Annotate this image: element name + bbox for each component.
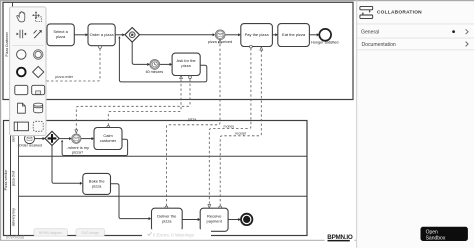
task Pay the pizza [241,24,273,47]
footer button SVG export [76,229,105,236]
task Bake the pizza [83,173,111,194]
pool Pizza Customer [3,2,353,99]
event timer 60 minutes [146,60,164,74]
task Receive payment [200,208,228,231]
palette icon gateway [33,66,44,77]
svg-text:pizza: pizza [162,219,172,224]
wire Pay the pizza to Eat the pizza [272,33,277,36]
svg-text:pizza: pizza [56,34,66,39]
palette icon data object [18,103,26,113]
palette icon hand tool [17,12,25,22]
wire parallel gateway down to Bake the pizza [52,146,82,185]
palette icon space tool [17,30,27,39]
svg-text:customer: customer [100,138,117,143]
svg-text:pizza?: pizza? [72,149,84,154]
palette icon intermediate event [34,50,43,59]
panel divider 1 [357,23,474,25]
svg-text:receipt: receipt [235,132,246,136]
svg-text:Order a pizza: Order a pizza [90,32,115,37]
gateway event-based G1 [125,28,140,43]
gateway parallel G2 [45,131,59,145]
svg-text:Hunger satisfied: Hunger satisfied [311,40,338,44]
wire Deliver to Receive payment [182,218,200,221]
properties panel [357,0,474,248]
svg-text:COLLABORATION: COLLABORATION [377,10,422,16]
button Open Sandbox [421,227,468,242]
wire gateway down to timer [132,42,150,66]
svg-text:Pay the pizza: Pay the pizza [245,32,270,37]
wire gateway to pizza received event [140,33,216,36]
wire Order received to parallel gateway [35,137,46,140]
event end payment received (terminate) [241,214,252,225]
footer lint status [142,229,211,238]
wire Bake the pizza to Deliver the pizza [111,184,152,220]
wire message flow money: Pay to Receive payment (dashed) [208,48,251,208]
wire timer to Ask for the pizza [160,63,173,66]
footer button BPMN export [34,229,68,236]
wire message flow Calm customer to Ask (dashed) [107,79,181,128]
palette icon task [15,85,28,94]
svg-text:money: money [224,125,235,129]
wire Select a pizza to Order a pizza [74,33,88,36]
wire message flow receipt: Receive payment to Pay (dashed) [219,50,261,209]
logo bpmn.io watermark [325,230,355,242]
wire start stub to Select a pizza [43,33,47,36]
wire loop Calm customer back [61,139,128,155]
task Eat the pizza [278,24,310,47]
svg-text:download: download [6,235,25,240]
palette icon data store [34,103,43,113]
task Deliver the pizza [152,208,183,231]
pool Pizza vendor [4,121,308,236]
lane divider 1 [19,155,308,157]
svg-text:Open: Open [426,229,438,235]
svg-text:BPMN diagram: BPMN diagram [39,231,62,235]
svg-text:0 Errors, 0 Warnings: 0 Errors, 0 Warnings [153,232,195,237]
panel divider 3 [357,49,474,51]
palette icon subprocess [32,85,45,94]
wire message flow Ask to where-is-my-pizza (dashed) [75,79,190,133]
page left border [0,0,1,240]
task Calm customer [94,128,122,150]
wire message flow pizza order (dashed) [46,46,102,81]
svg-text:pizza chef: pizza chef [12,171,16,186]
wire Receive payment to end event [228,218,241,221]
task Select a pizza [47,24,74,46]
svg-text:Pizza vendor: Pizza vendor [4,169,8,191]
wire message flow pizza: Deliver to pizza received (dashed) [165,40,221,209]
wire Order a pizza to event gateway [115,33,125,36]
node money source dot on Pay bottom [250,45,253,48]
panel row General [361,29,468,35]
svg-text:pizza: pizza [181,63,191,68]
palette icon global connect tool [34,30,42,38]
svg-text:Order received: Order received [19,143,42,147]
node message target arrow on Ask bottom [180,75,183,78]
svg-text:General: General [361,30,379,36]
svg-text:60 minutes: 60 minutes [146,70,164,74]
palette icon start event [17,50,26,59]
palette icon group [33,121,43,131]
svg-text:payment: payment [207,219,223,224]
svg-text:Documentation: Documentation [362,42,396,48]
palette icon end event [17,68,26,77]
event end Hunger satisfied [311,29,338,44]
node message source dot on Ask bottom [189,76,192,79]
lane divider 2 [19,195,308,197]
task Order a pizza [88,24,115,46]
palette panel [10,7,46,136]
wire pizza received to Pay the pizza [225,33,241,36]
footer grey line [0,240,356,241]
wire loop Ask for the pizza back to gateway [118,36,207,82]
panel row Documentation [362,42,469,48]
svg-text:SVG image: SVG image [82,231,99,235]
event where is my pizza (message catch) [66,134,89,154]
task Ask for the pizza [172,53,200,75]
event Order received (message start) [19,134,42,148]
wire where-is-my-pizza to Calm customer [81,137,94,140]
panel divider 2 [357,37,474,39]
palette icon lasso tool [33,12,42,22]
node receipt target arrow on Pay bottom [260,47,263,50]
icon collaboration (panel header) [360,6,373,18]
svg-text:pizza: pizza [92,184,102,189]
svg-text:Pizza Customer: Pizza Customer [5,31,9,57]
event pizza received (message catch) [208,30,232,44]
wire parallel gateway to where-is-my-pizza event [59,137,72,140]
svg-text:pizza: pizza [188,118,196,122]
wire Eat the pizza to end event [309,33,319,36]
svg-text:Sandbox: Sandbox [426,236,446,242]
svg-text:pizza order: pizza order [55,75,74,79]
page top border [0,0,474,1]
svg-text:Eat the pizza: Eat the pizza [282,32,306,37]
palette icon participant [14,122,28,131]
svg-text:delivery boy: delivery boy [12,208,16,226]
